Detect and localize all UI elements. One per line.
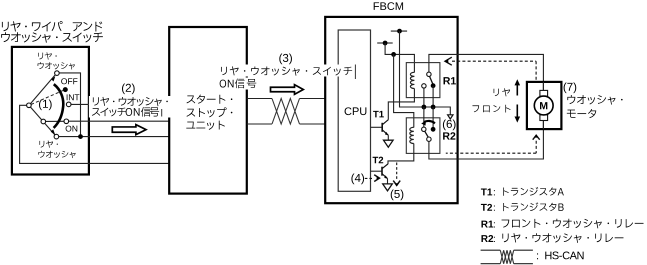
label title line2: [1, 32, 103, 43]
label FBCM: [374, 2, 403, 10]
label start-stop line3: [186, 121, 225, 130]
direction arrow rear (up): [515, 79, 521, 95]
relay R2 contact arm: [425, 131, 429, 138]
junction node B: [431, 105, 436, 110]
label start-stop line2: [187, 107, 233, 117]
washer motor box: [527, 82, 562, 129]
wiper arm to top contact: [31, 75, 56, 104]
legend T2: [481, 202, 564, 211]
wire top contact to junction: [59, 73, 80, 137]
ground symbol T1: [384, 140, 394, 147]
HS-CAN top wire: [247, 98, 326, 100]
transistor T2: [382, 164, 388, 179]
label (7): [564, 82, 577, 93]
wire B2 to R1 coil: [385, 43, 414, 73]
output arrow (6): [448, 115, 453, 119]
relay R1 coil: [410, 72, 414, 88]
junction on bar B1: [397, 29, 402, 34]
mid contact circle: [41, 119, 46, 124]
legend HS-CAN text: [537, 252, 584, 260]
power tap bar B2: [377, 42, 393, 44]
rear wiper and washer switch box: [12, 47, 89, 175]
label (2) cursor bar: [161, 109, 163, 117]
relay R1 left contact: [422, 84, 426, 88]
relay R2 actuation arrow: [421, 121, 435, 126]
relay R1 contact arm: [430, 76, 433, 84]
text background halos: [89, 65, 359, 118]
power tap bar B1: [391, 30, 407, 32]
motor terminal bottom: [540, 115, 548, 121]
legend R1: [481, 219, 643, 229]
label (3) text line1: [221, 66, 352, 75]
label (3) text line2: [220, 79, 257, 89]
label rear washer top line2: [38, 62, 75, 69]
signal arrow (3): [271, 85, 304, 95]
label (6): [443, 120, 456, 131]
dashed wiper arm to OFF contact: [31, 91, 63, 105]
label motor M: [540, 102, 547, 109]
wire R2 left contact to node A: [423, 107, 425, 127]
ON contact circle: [64, 119, 69, 124]
dashed route top with arrow into FBCM: [445, 57, 537, 65]
label front direction: [472, 105, 510, 113]
wire ON contact to start-stop unit: [69, 120, 170, 122]
wiper arm to bottom contact: [30, 107, 55, 135]
OFF contact dot: [63, 87, 68, 92]
label rear washer bottom line1: [39, 141, 57, 148]
label (5): [391, 190, 404, 201]
legend R2: [481, 233, 623, 243]
top contact circle: [55, 71, 60, 76]
signal arrow (2): [112, 125, 146, 135]
pivot contact circle: [27, 103, 32, 108]
junction on bar B2: [383, 41, 388, 46]
wire R1 right contact to node B: [432, 86, 434, 107]
wire R2 coil to T2 collector: [388, 144, 414, 165]
junction of washer contact wires: [78, 134, 83, 139]
label CPU: [345, 107, 367, 115]
wire R1 common to motor top: [429, 54, 544, 90]
FBCM box: [325, 17, 457, 203]
label (2): [122, 83, 135, 94]
bottom contact circle: [54, 134, 59, 139]
HS-CAN twisted pair symbol: [272, 99, 300, 125]
wire T1 emitter to ground: [387, 135, 389, 140]
label start-stop line1: [187, 95, 233, 104]
legend T1: [481, 187, 564, 196]
label R2: [443, 132, 455, 139]
label (2) text line2: [92, 107, 159, 117]
transistor T1: [382, 120, 388, 136]
dashed route right upper segment: [535, 61, 537, 80]
relay R2 left contact: [422, 127, 426, 131]
arrowhead on lower wiper arm: [51, 129, 56, 135]
label INT: [67, 94, 80, 100]
direction arrow front (down): [515, 105, 521, 123]
relay R1 common contact: [427, 72, 431, 76]
wire branch to R2 coil: [394, 54, 414, 127]
label title line1: [2, 21, 102, 32]
motor terminal top: [540, 90, 548, 96]
motor top terminal wire: [542, 82, 544, 92]
transistor T1 base wire: [371, 126, 383, 128]
wire B1 to relay contact rail: [400, 31, 451, 115]
wire R1 left contact to node A: [423, 88, 425, 107]
label T2: [373, 157, 384, 164]
wire INT contact to start-stop unit: [71, 103, 170, 105]
label R1: [444, 77, 456, 84]
dashed route arrow up into motor: [533, 134, 540, 153]
relay R2 box: [406, 118, 440, 154]
label T1: [373, 111, 384, 118]
wire washer common to start-stop unit: [59, 136, 170, 138]
dashed route bottom segment: [446, 152, 536, 154]
relay R2 common contact: [427, 137, 431, 141]
label ON: [66, 126, 78, 132]
legend HS-CAN symbol: [481, 250, 533, 264]
wire between mid and ON contacts: [46, 120, 65, 122]
motor M circle: [534, 96, 553, 115]
label (3) cursor bar: [354, 65, 356, 80]
wire T2 emitter to ground: [387, 179, 389, 184]
label (4): [351, 174, 364, 185]
label (3): [279, 54, 292, 65]
wire R2 common to motor bottom: [429, 120, 544, 159]
HS-CAN bottom wire: [247, 123, 326, 125]
ground symbol T2: [383, 184, 393, 191]
junction node A: [422, 105, 427, 110]
wire R1 coil to T1 collector: [388, 89, 414, 120]
wire pivot to start-stop unit: [20, 105, 170, 163]
wire R2 right contact to node B: [432, 107, 434, 129]
label (1): [39, 99, 52, 110]
dashed arrow (5): [393, 163, 400, 187]
relay R2 right contact dot: [431, 127, 436, 132]
start-stop unit box: [169, 27, 247, 194]
label washer motor line2: [567, 109, 596, 118]
CPU box: [338, 30, 370, 191]
label OFF: [61, 78, 77, 84]
label rear direction: [494, 88, 510, 96]
label washer motor line1: [567, 95, 622, 105]
relay R1 box: [406, 63, 440, 98]
dashed arrow (4): [365, 175, 380, 182]
label rear washer top line1: [38, 52, 56, 59]
transistor T2 base wire: [371, 170, 383, 172]
relay R1 right contact dot: [431, 83, 436, 88]
relay R2 coil: [410, 127, 414, 143]
label rear washer bottom line2: [38, 151, 75, 158]
arrowhead on upper wiper arm: [51, 76, 55, 81]
junction of B2 branch: [391, 52, 396, 57]
switch rotation arc: [54, 84, 64, 128]
INT contact circle: [66, 102, 71, 107]
motor bottom terminal wire: [542, 118, 544, 129]
label (2) text line1: [93, 97, 168, 106]
